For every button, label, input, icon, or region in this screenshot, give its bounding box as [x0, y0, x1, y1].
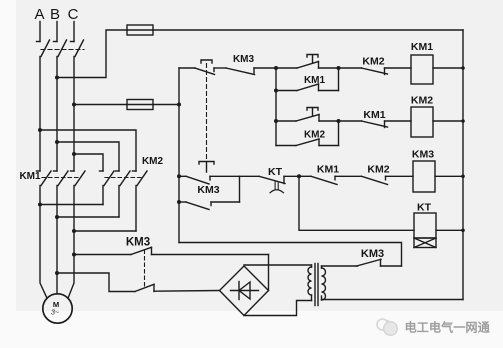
- button SB stop pole 2: [179, 162, 240, 185]
- node KM3 parallel tap: [177, 200, 181, 204]
- transformer T primary: [308, 265, 312, 301]
- coil KM1 label: [411, 41, 433, 53]
- contactor KM1 pole 1: [37, 171, 52, 205]
- contactor KM3 brake pole b: [135, 284, 220, 291]
- coil KT delay element: [414, 238, 436, 248]
- svg-text:KM2: KM2: [367, 164, 389, 176]
- wire KM3 coil out: [435, 175, 463, 177]
- node KM3 rail joint: [461, 175, 465, 179]
- svg-text:KM1: KM1: [317, 164, 339, 176]
- node A label: [34, 6, 44, 23]
- node B reverse tap: [55, 140, 59, 144]
- contactor KM2 pole 3: [133, 171, 148, 231]
- coil KM3: [413, 161, 435, 192]
- wire motor lead 2: [56, 217, 58, 294]
- button SB linkage: [206, 64, 208, 161]
- svg-text:KM1: KM1: [19, 171, 41, 182]
- wire to KT contact: [240, 175, 260, 177]
- coil KT label: [417, 202, 432, 214]
- wire brake feed: [179, 243, 402, 267]
- contact KM1 NC label: [363, 109, 385, 121]
- wire A to KM2 pole3: [40, 130, 136, 171]
- node junction B: [297, 174, 301, 178]
- svg-text:KM1: KM1: [363, 109, 385, 121]
- contact KM1 NC interlock: [339, 121, 412, 128]
- wire transformer secondary top: [322, 265, 358, 267]
- contactor KM2 linkage: [105, 177, 143, 179]
- contact KM3 parallel label: [197, 184, 219, 196]
- wire phase A bus: [39, 57, 41, 172]
- wire KT coil feed: [299, 176, 414, 230]
- svg-text:KM3: KM3: [197, 184, 219, 196]
- wire rectifier top to transformer primary: [244, 264, 312, 266]
- transformer T core: [315, 264, 318, 306]
- coil KM3 label: [412, 149, 434, 161]
- wire transformer secondary bottom: [322, 299, 464, 301]
- contact KM2 aux label: [304, 130, 326, 141]
- svg-text:KM1: KM1: [411, 41, 433, 53]
- svg-text:KT: KT: [268, 166, 283, 178]
- node SB1 right junction: [337, 66, 341, 70]
- contact KM3 NC top: [226, 68, 276, 75]
- contact KM3 transformer NO: [357, 259, 402, 266]
- svg-text:KT: KT: [417, 202, 432, 214]
- contact KM3 NC top label: [233, 54, 255, 65]
- button SB1 start: [276, 55, 339, 69]
- svg-text:KM3: KM3: [412, 149, 434, 161]
- contact KM2 NC label: [362, 56, 384, 68]
- wire rectifier DC plus drop: [268, 255, 270, 291]
- button SB2 start: [276, 108, 339, 122]
- svg-text:电工电气一网通: 电工电气一网通: [405, 320, 491, 335]
- contactor KM3 brake label: [126, 237, 150, 249]
- button SB stop pole 1: [179, 60, 226, 75]
- node C label: [68, 6, 79, 23]
- motor M: [43, 294, 72, 323]
- wire phase C bus: [73, 57, 75, 172]
- wire phase A drop: [39, 22, 41, 42]
- contact KM2 NC interlock: [339, 68, 412, 75]
- contact KM1 row3 NO: [299, 176, 362, 184]
- svg-text:KM1: KM1: [304, 75, 326, 86]
- wire brake tap 2: [57, 273, 135, 292]
- wire KM1 coil out: [433, 67, 463, 69]
- node motor lead 2 merge: [55, 215, 59, 219]
- node KM2 rail joint: [461, 119, 465, 123]
- svg-text:KM2: KM2: [362, 56, 384, 68]
- wire KM2 coil out: [433, 120, 463, 122]
- wire control right rail: [462, 30, 464, 300]
- contactor KM2 label: [142, 156, 164, 167]
- node motor lead 3 merge: [72, 229, 76, 233]
- watermark logo: [377, 319, 397, 335]
- wire to fuse FU1: [57, 30, 127, 78]
- transformer T secondary: [322, 266, 326, 300]
- node stop pole2 tap: [177, 174, 181, 178]
- fuse FU2: [127, 100, 153, 110]
- svg-text:KM2: KM2: [304, 130, 326, 141]
- wire rectifier bottom to transformer primary: [244, 301, 312, 316]
- node brake tap lead3: [72, 253, 76, 257]
- svg-text:M: M: [53, 300, 59, 309]
- contactor KM1 pole 3: [71, 171, 86, 231]
- wire brake tap 1: [74, 254, 131, 256]
- node KT rail joint: [461, 229, 465, 233]
- wire motor lead 3: [68, 231, 74, 298]
- contactor KM1 pole 2: [54, 171, 69, 217]
- node C reverse tap: [72, 152, 76, 156]
- node B label: [50, 6, 60, 23]
- rectifier bridge VC: [220, 266, 269, 316]
- node brake tap lead2: [55, 271, 59, 275]
- svg-text:B: B: [50, 6, 60, 23]
- coil KM1: [411, 55, 433, 84]
- coil KM2: [411, 107, 433, 137]
- wire fuse FU2 to control rail: [153, 104, 179, 106]
- contact KM3 parallel NO: [179, 176, 240, 209]
- wire KT coil out: [436, 229, 463, 231]
- wire control left rail: [178, 68, 180, 243]
- contactor KM1 linkage: [42, 177, 81, 179]
- svg-text:KM3: KM3: [233, 54, 255, 65]
- switch QS pole 3: [71, 40, 84, 57]
- wire to fuse FU2: [74, 104, 127, 106]
- node KM1 rail joint: [461, 66, 465, 70]
- svg-text:3~: 3~: [51, 310, 59, 317]
- node junction A: [274, 66, 278, 70]
- contact KM2 aux NO: [276, 121, 339, 146]
- contactor KM3 brake pole a: [131, 247, 269, 254]
- switch QS pole 1: [37, 40, 50, 57]
- contactor KM3 brake linkage: [144, 250, 146, 287]
- wire phase B bus: [56, 57, 58, 172]
- wire control top rail: [153, 29, 463, 31]
- fuse FU1: [127, 25, 153, 35]
- coil KM2 label: [411, 95, 433, 107]
- svg-text:KM2: KM2: [142, 156, 164, 167]
- node C fuse tap: [72, 103, 76, 107]
- node A reverse tap: [38, 128, 42, 132]
- contact KM3 transformer label: [361, 248, 384, 260]
- coil KT: [414, 213, 436, 238]
- contact KM2 row3 NO: [362, 176, 414, 184]
- node SB2 right junction: [337, 119, 341, 123]
- node row2 left: [274, 119, 278, 123]
- wire KM2 pole1 merge: [40, 204, 103, 206]
- contactor KM1 label: [19, 171, 41, 182]
- wire motor lead 1: [40, 205, 47, 299]
- contactor KM2 pole 1: [100, 171, 115, 205]
- svg-text:KM2: KM2: [411, 95, 433, 107]
- wire phase C drop: [73, 22, 75, 42]
- wire C to KM2 pole1: [74, 154, 103, 171]
- node KM1 aux tap: [274, 89, 278, 93]
- svg-text:A: A: [34, 6, 44, 23]
- contact KM1 aux label: [304, 75, 326, 86]
- wire phase B drop: [56, 22, 58, 42]
- motor M label: [51, 300, 59, 317]
- svg-text:KM3: KM3: [361, 248, 384, 260]
- svg-text:KM3: KM3: [126, 237, 150, 249]
- node control rail feed: [177, 103, 181, 107]
- node motor lead 1 merge: [38, 203, 42, 207]
- contact KT label: [268, 166, 283, 178]
- contactor KM2 pole 2: [116, 171, 131, 217]
- diode VD: [231, 282, 259, 300]
- switch QS pole 2: [54, 40, 67, 57]
- wire KM2 pole3 merge: [74, 230, 136, 232]
- contact KM2 row3 label: [367, 164, 389, 176]
- switch QS linkage: [41, 49, 84, 51]
- node B fuse tap: [55, 76, 59, 80]
- wire KM2 pole2 merge: [57, 216, 119, 218]
- contact KT delayed: [259, 176, 299, 193]
- contact KM1 row3 label: [317, 164, 339, 176]
- contact KM1 aux NO: [276, 68, 339, 91]
- svg-text:C: C: [68, 6, 79, 23]
- wire B to KM2 pole2: [57, 142, 119, 171]
- wire left subrail: [275, 68, 277, 146]
